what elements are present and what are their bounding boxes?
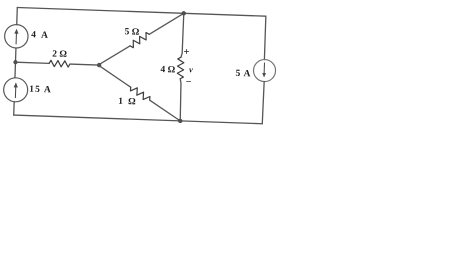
current source I3 arrow (262, 63, 266, 78)
svg-text:2 Ω: 2 Ω (52, 49, 67, 60)
svg-text:v: v (189, 64, 193, 74)
wire middle branch right (70, 63, 98, 66)
current source I2 arrow (13, 82, 18, 97)
wire bottom rail (14, 115, 263, 124)
svg-text:1 Ω: 1 Ω (118, 97, 137, 108)
resistor R4 4ohm (177, 57, 184, 79)
svg-text:+: + (183, 47, 189, 58)
wire 4ohm branch upper (181, 13, 184, 57)
wire right rail top segment (264, 16, 265, 59)
resistor R2 5ohm (130, 32, 149, 48)
wire right rail bottom segment (262, 82, 264, 124)
wire 4ohm branch lower (179, 79, 182, 121)
node left junction (13, 60, 17, 64)
current source I3 5A circle (253, 59, 276, 82)
wire top rail (17, 8, 266, 17)
svg-text:−: − (185, 77, 191, 88)
current source I1 arrow (14, 29, 19, 44)
svg-text:5 Ω: 5 Ω (124, 27, 139, 38)
resistor R1 2ohm (49, 60, 70, 67)
node top junction (182, 11, 187, 16)
current source I2 15A circle (3, 77, 28, 102)
wire left rail mid segment (14, 48, 17, 78)
wire middle branch left (15, 62, 49, 63)
svg-text:15 A: 15 A (29, 85, 52, 96)
wire left rail top segment (16, 8, 19, 25)
wire 5ohm branch upper (149, 12, 184, 35)
wire 1ohm branch lower (149, 100, 181, 121)
node middle junction (97, 63, 102, 68)
wire 1ohm branch upper (98, 65, 132, 87)
svg-text:4 A: 4 A (31, 30, 50, 41)
svg-text:4 Ω: 4 Ω (160, 65, 175, 76)
resistor R3 1ohm (130, 87, 150, 100)
wire left rail bottom segment (13, 102, 15, 115)
wire 5ohm branch lower (98, 45, 130, 66)
svg-text:5 A: 5 A (235, 69, 251, 80)
current source I1 4A circle (4, 24, 28, 48)
node bottom junction (178, 119, 183, 124)
